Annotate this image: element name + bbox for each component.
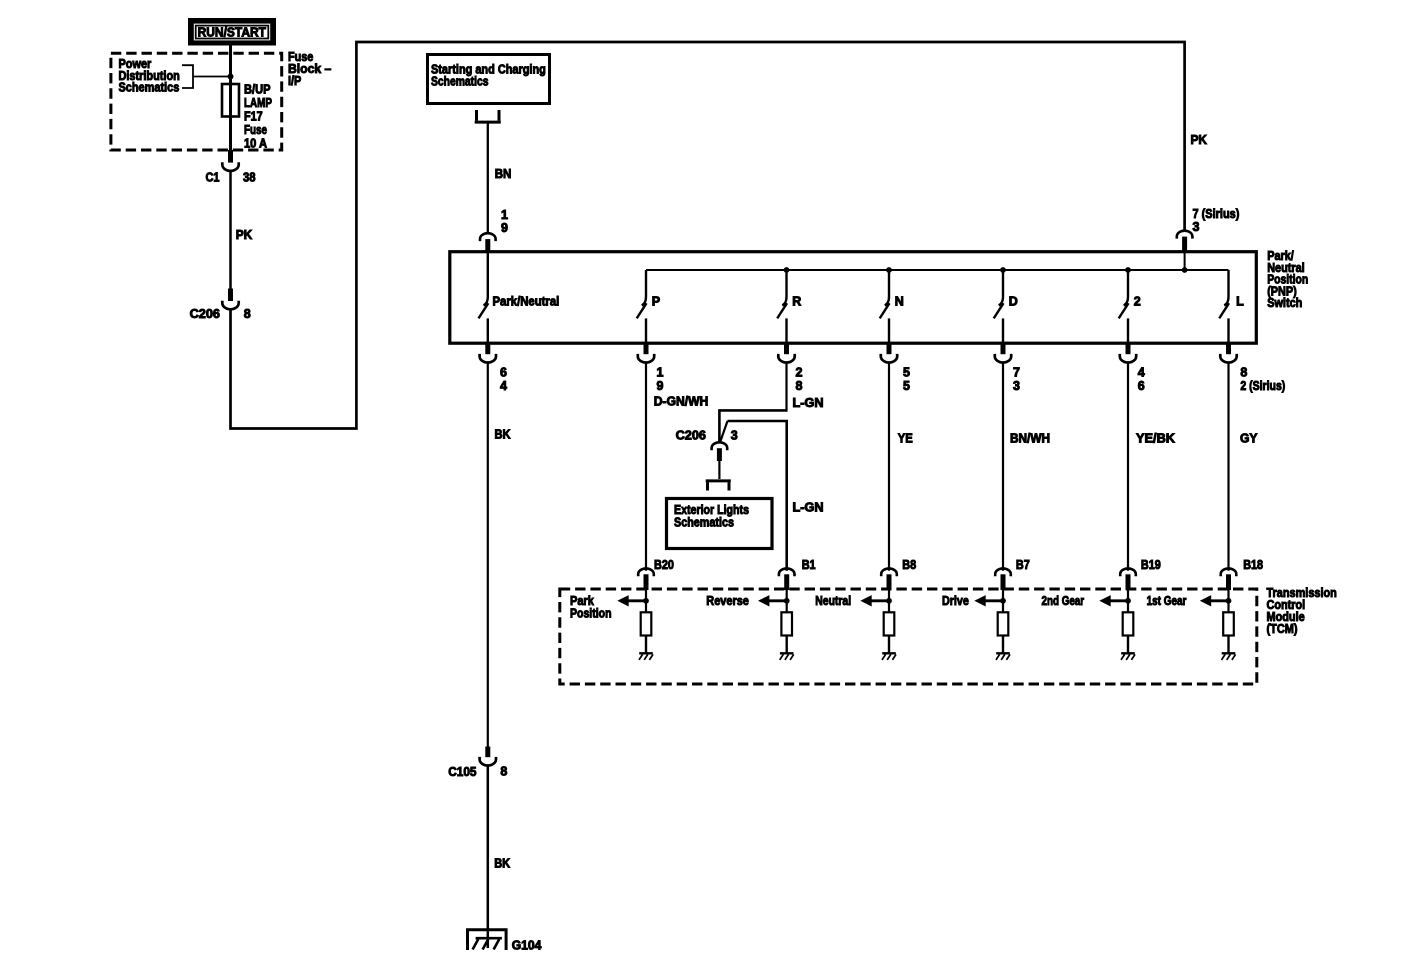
svg-text:6: 6: [1138, 379, 1145, 393]
svg-text:3: 3: [1193, 220, 1200, 234]
svg-text:B19: B19: [1141, 558, 1161, 572]
svg-text:BK: BK: [494, 857, 510, 871]
label C206 8: [190, 307, 251, 321]
wire RUN/START to fuse: [229, 46, 232, 152]
TCM resistor (Drive): [998, 612, 1009, 635]
wire C206 to exterior lights reference: [718, 461, 720, 479]
wire BN: [487, 124, 489, 234]
reference box Exterior Lights Schematics: [667, 499, 773, 549]
svg-text:Schematics: Schematics: [674, 516, 734, 530]
svg-text:8: 8: [1240, 365, 1247, 379]
svg-text:YE: YE: [898, 431, 913, 445]
label pins 8 / 2 (Sirius): [1240, 365, 1285, 393]
svg-text:3: 3: [1013, 379, 1020, 393]
label fuse value: [244, 83, 272, 151]
svg-text:Schematics: Schematics: [119, 81, 180, 95]
wire D-GN/WH (P output to TCM B20): [645, 362, 647, 571]
label pins 4 / 6: [1138, 365, 1145, 393]
junction dot (2nd Gear): [1125, 598, 1131, 604]
svg-text:8: 8: [244, 307, 251, 321]
TCM dashed outline: [560, 589, 1257, 684]
svg-text:B20: B20: [654, 558, 674, 572]
fuse F17 B/UP LAMP 10A: [222, 84, 239, 117]
svg-text:Switch: Switch: [1267, 296, 1302, 310]
label Transmission Control Module (TCM): [1267, 586, 1337, 636]
wire into TCM (Drive): [1002, 589, 1004, 612]
connector at TCM input B19: [1120, 568, 1136, 590]
TCM resistor (Park Position): [641, 612, 652, 635]
svg-text:Park/Neutral: Park/Neutral: [493, 294, 560, 308]
svg-text:B18: B18: [1243, 558, 1263, 572]
wire YE (N output to TCM B8): [888, 362, 890, 571]
wire into TCM (2nd Gear): [1127, 589, 1129, 612]
TCM resistor (Neutral): [884, 612, 895, 635]
PNP switch box outline: [450, 252, 1257, 344]
connector at PNP switch output D: [995, 343, 1011, 363]
off-page bracket under Starting and Charging: [475, 110, 478, 121]
svg-text:G104: G104: [512, 938, 542, 952]
svg-text:Fuse: Fuse: [244, 123, 267, 137]
svg-text:D: D: [1009, 294, 1018, 308]
svg-text:C105: C105: [448, 765, 476, 779]
svg-text:Reverse: Reverse: [706, 594, 749, 608]
junction dot: [228, 74, 234, 80]
connector into PNP switch (PK): [1177, 231, 1193, 253]
svg-text:F17: F17: [244, 110, 263, 124]
internal ground (Reverse): [780, 653, 794, 660]
svg-text:YE/BK: YE/BK: [1136, 431, 1175, 445]
off-page bracket above Exterior Lights box: [706, 482, 709, 490]
wire resistor to ground (Neutral): [888, 636, 890, 654]
svg-text:C206: C206: [676, 429, 706, 443]
svg-text:8: 8: [500, 765, 507, 779]
svg-text:Schematics: Schematics: [431, 75, 489, 89]
svg-text:1: 1: [501, 208, 508, 222]
label Power Distribution Schematics: [119, 57, 180, 95]
label pins 7 / 3: [1013, 365, 1020, 393]
wire bracket to fuse feed: [193, 76, 231, 78]
connector at TCM input B18: [1221, 568, 1237, 590]
wire BN/WH (D output to TCM B7): [1002, 362, 1004, 571]
wire PK (fuse to C206): [229, 171, 232, 290]
label pins 1 / 9: [657, 365, 664, 393]
svg-text:1st Gear: 1st Gear: [1147, 594, 1187, 608]
wire from C206 junction to TCM B1: [728, 421, 787, 571]
internal ground (2nd Gear): [1121, 653, 1135, 660]
svg-text:4: 4: [1138, 365, 1145, 379]
connector C206 pin 8: [222, 289, 238, 310]
wire PK entry to bus: [1184, 252, 1186, 270]
svg-text:2nd Gear: 2nd Gear: [1042, 594, 1085, 608]
svg-text:10 A: 10 A: [244, 137, 267, 151]
svg-text:PK: PK: [1191, 133, 1208, 147]
connector C206 pin 3 (to exterior lights): [712, 442, 728, 461]
svg-text:GY: GY: [1240, 431, 1258, 445]
label C206 3: [676, 429, 738, 443]
switch 2: [1119, 270, 1129, 343]
connector at PNP switch output N: [881, 343, 897, 363]
svg-text:(TCM): (TCM): [1267, 622, 1298, 636]
svg-text:PK: PK: [236, 228, 253, 242]
diagonal wire into C206: [720, 421, 728, 443]
svg-text:BN: BN: [495, 167, 512, 181]
connector into PNP switch (BN): [480, 233, 496, 253]
wire resistor to ground (Drive): [1002, 636, 1004, 654]
junction dots on bus: [784, 267, 1188, 273]
wire resistor to ground (2nd Gear): [1127, 636, 1129, 654]
svg-text:L-GN: L-GN: [793, 501, 824, 515]
label C1 38: [206, 171, 256, 185]
signal arrow Drive: [974, 595, 1003, 606]
svg-text:B8: B8: [902, 558, 916, 572]
internal ground (Neutral): [882, 653, 896, 660]
wire GY (L output to TCM B18): [1227, 362, 1229, 571]
svg-text:B7: B7: [1016, 558, 1030, 572]
svg-text:4: 4: [500, 379, 507, 393]
junction dot (1st Gear): [1226, 598, 1232, 604]
connector C1 pin 38: [222, 150, 238, 171]
switch D: [994, 270, 1004, 343]
svg-text:C206: C206: [190, 307, 220, 321]
signal arrow Reverse: [758, 595, 787, 606]
svg-text:Neutral: Neutral: [815, 594, 851, 608]
wire into TCM (1st Gear): [1227, 589, 1229, 612]
wire into TCM (Park Position): [645, 589, 647, 612]
connector at PNP switch output 2: [1120, 343, 1136, 363]
label C105 8: [448, 765, 507, 780]
svg-text:2 (Sirius): 2 (Sirius): [1240, 379, 1285, 393]
connector C105 pin 8: [480, 747, 496, 766]
label Park Position: [570, 594, 612, 620]
wire L-GN (R output): [785, 362, 787, 412]
switch Park/Neutral: [479, 253, 489, 343]
connector at PNP switch output R: [778, 343, 794, 363]
TCM resistor (Reverse): [781, 612, 792, 635]
label Fuse Block - I/P: [288, 50, 331, 88]
reference box Starting and Charging Schematics: [428, 55, 550, 104]
internal ground (1st Gear): [1222, 653, 1236, 660]
svg-text:D-GN/WH: D-GN/WH: [654, 395, 709, 409]
svg-text:N: N: [895, 294, 904, 308]
svg-text:8: 8: [796, 379, 803, 393]
svg-text:1: 1: [657, 365, 664, 379]
svg-text:B/UP: B/UP: [244, 83, 271, 97]
switch P: [637, 270, 647, 343]
junction dot (Neutral): [886, 598, 892, 604]
junction dot (Reverse): [784, 598, 790, 604]
connector at TCM input B20: [638, 568, 654, 590]
svg-text:5: 5: [903, 365, 910, 379]
svg-text:Drive: Drive: [942, 594, 969, 608]
connector at TCM input B7: [995, 568, 1011, 590]
switch R: [777, 270, 787, 343]
bracket from Power Distribution label: [182, 65, 193, 88]
switch N: [880, 270, 890, 343]
internal bus wire: [646, 269, 1229, 271]
signal arrow Neutral: [860, 595, 889, 606]
svg-text:2: 2: [796, 365, 803, 379]
wire resistor to ground (Park Position): [645, 636, 647, 654]
connector at TCM input B8: [881, 568, 897, 590]
switch L: [1219, 270, 1229, 343]
label pins 2 / 8: [796, 365, 803, 393]
svg-text:7: 7: [1013, 365, 1020, 379]
svg-text:C1: C1: [206, 171, 220, 185]
label pins 7 (Sirius) / 3: [1193, 207, 1240, 234]
svg-text:I/P: I/P: [288, 74, 301, 88]
power source box RUN/START: [188, 18, 276, 46]
connector at PNP switch output Park/Neutral: [480, 343, 496, 362]
connector at PNP switch output L: [1220, 343, 1236, 363]
wire YE/BK (2 output to TCM B19): [1127, 362, 1129, 571]
signal arrow Park Position: [617, 595, 646, 606]
label pins 1 / 9: [501, 208, 508, 235]
svg-text:5: 5: [903, 379, 910, 393]
svg-text:L: L: [1236, 294, 1244, 308]
junction dot (Drive): [1000, 598, 1006, 604]
connector at TCM input B1: [779, 568, 795, 590]
connector at PNP switch output P: [638, 343, 654, 363]
svg-text:BN/WH: BN/WH: [1010, 431, 1050, 445]
internal ground (Park Position): [639, 653, 653, 660]
svg-text:RUN/START: RUN/START: [198, 25, 267, 39]
wire PK loop (C206 down, right, up, across top, down to PNP switch): [231, 42, 1185, 429]
wire BK (Park/Neutral output): [487, 362, 489, 749]
ground G104: [468, 930, 507, 950]
TCM resistor (1st Gear): [1223, 612, 1234, 635]
fuse block I/P dashed outline: [111, 53, 282, 150]
svg-text:9: 9: [501, 221, 508, 235]
wire BK (C105 to G104): [487, 766, 490, 949]
signal arrow 2nd Gear: [1099, 595, 1128, 606]
wire into TCM (Reverse): [786, 589, 788, 612]
svg-text:7 (Sirius): 7 (Sirius): [1193, 207, 1240, 221]
svg-text:6: 6: [500, 365, 507, 379]
label pins 5 / 5: [903, 365, 910, 393]
svg-text:3: 3: [731, 429, 738, 443]
wire resistor to ground (1st Gear): [1227, 636, 1229, 654]
svg-text:38: 38: [243, 171, 256, 185]
svg-text:L-GN: L-GN: [793, 396, 824, 410]
svg-text:R: R: [792, 294, 801, 308]
TCM resistor (2nd Gear): [1123, 612, 1134, 635]
wire into TCM (Neutral): [888, 589, 890, 612]
label pins 6 / 4: [500, 365, 507, 393]
svg-text:9: 9: [657, 379, 664, 393]
svg-text:B1: B1: [802, 558, 816, 572]
svg-text:BK: BK: [495, 427, 511, 441]
label Park/Neutral Position (PNP) Switch: [1267, 249, 1308, 310]
junction dot (Park Position): [643, 598, 649, 604]
wire resistor to ground (Reverse): [786, 636, 788, 654]
internal ground (Drive): [996, 653, 1010, 660]
svg-text:Position: Position: [570, 607, 612, 621]
svg-text:2: 2: [1134, 294, 1141, 308]
svg-text:P: P: [652, 294, 660, 308]
wire bend to C206: [719, 410, 786, 443]
svg-text:LAMP: LAMP: [244, 96, 272, 110]
signal arrow 1st Gear: [1200, 595, 1229, 606]
